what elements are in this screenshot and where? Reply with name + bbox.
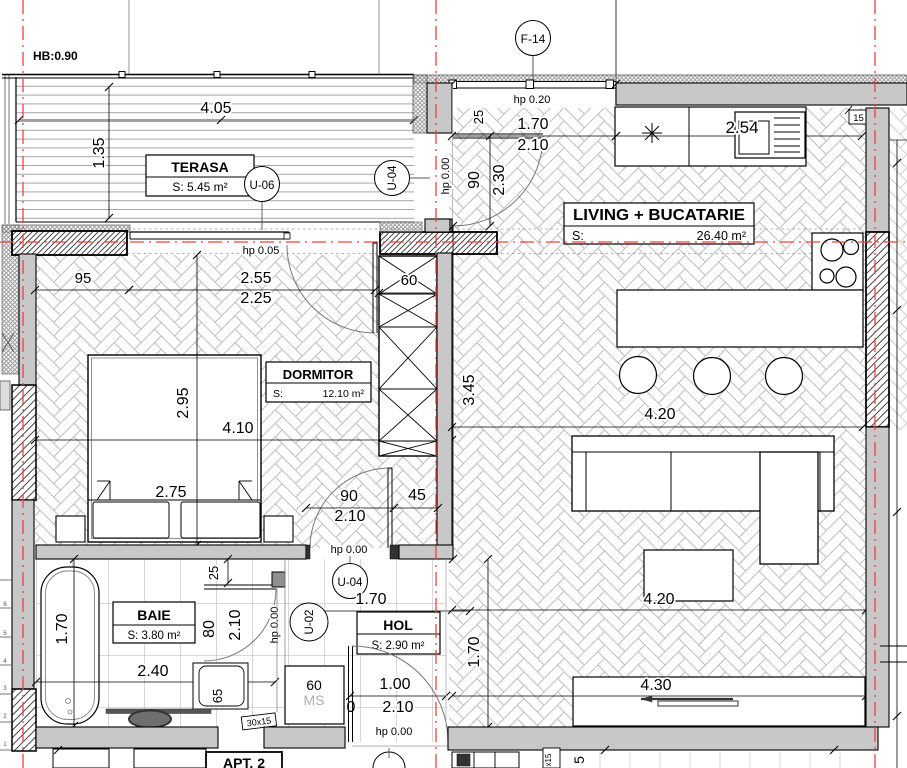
svg-text:U-04: U-04 (338, 577, 364, 589)
svg-text:TERASA: TERASA (171, 159, 229, 175)
svg-text:LIVING + BUCATARIE: LIVING + BUCATARIE (573, 207, 745, 224)
svg-text:hp 0.00: hp 0.00 (376, 726, 413, 738)
svg-text:65: 65 (210, 689, 225, 703)
svg-text:hp 0.05: hp 0.05 (243, 245, 280, 257)
svg-text:1.70: 1.70 (517, 116, 548, 133)
svg-text:2.30: 2.30 (491, 164, 508, 195)
svg-text:60: 60 (401, 272, 418, 289)
svg-text:F-14: F-14 (521, 32, 546, 46)
svg-text:2.55: 2.55 (240, 270, 271, 287)
svg-text:MS: MS (304, 692, 325, 708)
svg-text:2.10: 2.10 (227, 609, 244, 640)
svg-text:4.20: 4.20 (643, 591, 674, 608)
svg-text:25: 25 (206, 566, 221, 580)
svg-text:12.10 m²: 12.10 m² (323, 388, 365, 400)
svg-text:2.25: 2.25 (240, 290, 271, 307)
svg-text:5: 5 (571, 756, 587, 764)
svg-text:APT. 2: APT. 2 (223, 755, 265, 768)
svg-text:90: 90 (466, 171, 483, 189)
svg-text:x15: x15 (544, 753, 553, 766)
svg-text:S:: S: (572, 229, 584, 243)
svg-text:4.30: 4.30 (640, 677, 671, 694)
svg-text:4.20: 4.20 (644, 406, 675, 423)
svg-text:1.35: 1.35 (91, 137, 108, 168)
svg-text:S: 3.80 m²: S: 3.80 m² (127, 630, 180, 642)
svg-text:15: 15 (853, 113, 864, 124)
svg-text:DORMITOR: DORMITOR (283, 367, 354, 382)
svg-text:HOL: HOL (383, 617, 413, 633)
svg-text:2.75: 2.75 (155, 484, 186, 501)
svg-text:90: 90 (340, 488, 358, 505)
svg-text:U-06: U-06 (250, 180, 275, 192)
svg-text:U-04: U-04 (387, 165, 399, 191)
svg-text:1.00: 1.00 (379, 676, 410, 693)
svg-text:S: 5.45 m²: S: 5.45 m² (172, 180, 227, 194)
svg-text:45: 45 (408, 487, 426, 504)
svg-text:hp 0.00: hp 0.00 (331, 544, 368, 556)
svg-text:U-02: U-02 (304, 610, 316, 635)
svg-text:3.45: 3.45 (461, 374, 478, 405)
svg-text:2.95: 2.95 (175, 387, 192, 418)
svg-text:26.40 m²: 26.40 m² (697, 229, 746, 243)
svg-text:1.70: 1.70 (54, 613, 71, 644)
svg-text:80: 80 (201, 620, 218, 638)
svg-text:hp 0.20: hp 0.20 (514, 94, 551, 106)
svg-text:4.05: 4.05 (200, 100, 231, 117)
svg-text:2.10: 2.10 (382, 699, 413, 716)
svg-text:hp 0.00: hp 0.00 (269, 607, 281, 644)
svg-text:1.70: 1.70 (466, 636, 483, 667)
svg-text:2.40: 2.40 (137, 663, 168, 680)
svg-text:2.10: 2.10 (334, 508, 365, 525)
svg-text:BAIE: BAIE (137, 607, 170, 623)
svg-text:2.54: 2.54 (725, 118, 758, 137)
svg-text:2.10: 2.10 (517, 137, 548, 154)
svg-text:S:: S: (273, 388, 283, 400)
svg-text:0: 0 (347, 699, 356, 716)
svg-text:25: 25 (471, 110, 486, 124)
svg-text:95: 95 (75, 270, 92, 287)
svg-text:60: 60 (306, 677, 322, 693)
svg-text:4.10: 4.10 (222, 420, 253, 437)
svg-text:hp 0.00: hp 0.00 (440, 158, 452, 195)
svg-text:HB:0.90: HB:0.90 (33, 49, 78, 63)
svg-text:1.70: 1.70 (355, 591, 386, 608)
